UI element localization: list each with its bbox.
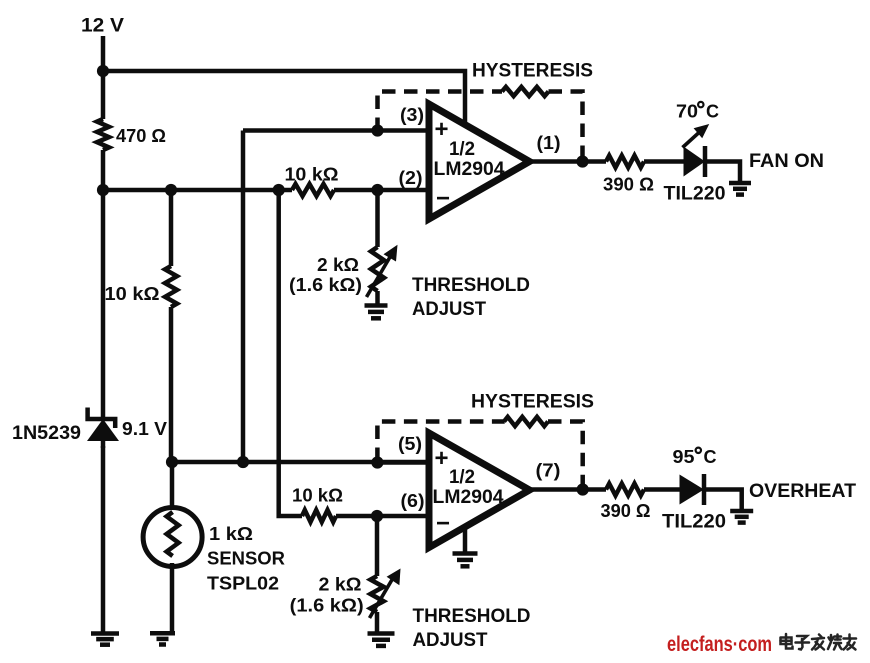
svg-text:1N5239: 1N5239	[12, 423, 81, 444]
potentiometer RP1 arrow	[367, 257, 391, 297]
svg-text:(3): (3)	[400, 105, 424, 125]
svg-text:10 kΩ: 10 kΩ	[292, 486, 343, 506]
svg-text:1/2: 1/2	[449, 467, 475, 488]
node output2 junction	[577, 483, 589, 495]
node A junction left	[97, 184, 109, 196]
ground left rail	[91, 631, 119, 636]
svg-text:(1.6 kΩ): (1.6 kΩ)	[289, 275, 362, 295]
watermark CJK 电子发烧友	[781, 634, 793, 649]
svg-text:(1.6 kΩ): (1.6 kΩ)	[290, 596, 364, 616]
svg-text:9.1 V: 9.1 V	[122, 419, 167, 439]
svg-text:10 kΩ: 10 kΩ	[105, 284, 160, 304]
svg-text:C: C	[704, 447, 717, 467]
wire RP2 to ground	[375, 612, 380, 634]
svg-text:(5): (5)	[398, 434, 422, 454]
wire R2 to node B	[169, 307, 174, 462]
wire node B to sensor	[170, 462, 175, 508]
potentiometer RP2 element	[371, 576, 384, 612]
resistor R8 hysteresis2	[504, 417, 548, 426]
svg-text:SENSOR: SENSOR	[207, 549, 285, 569]
node pin5 junction	[371, 456, 383, 468]
potentiometer RP1 element	[371, 247, 384, 291]
node B junction sensor	[166, 456, 178, 468]
svg-text:390 Ω: 390 Ω	[601, 501, 651, 521]
resistor R6 10k bottom	[302, 510, 336, 522]
resistor R2 10k vertical	[165, 266, 177, 307]
wire sensor to ground	[170, 563, 175, 633]
wire R9 to LED2	[644, 487, 682, 492]
wire hysteresis feedback dashed left	[378, 92, 503, 132]
zener diode D1 1N5239	[87, 419, 119, 441]
node 12V junction	[97, 65, 109, 77]
node pin6 junction	[371, 510, 383, 522]
svg-text:ADJUST: ADJUST	[412, 299, 486, 320]
svg-text:2 kΩ: 2 kΩ	[317, 255, 359, 275]
svg-text:470 Ω: 470 Ω	[116, 126, 166, 146]
node output1 junction	[576, 155, 588, 167]
node pin2 junction	[371, 184, 383, 196]
svg-text:THRESHOLD: THRESHOLD	[412, 275, 530, 296]
ground RP2	[368, 631, 395, 636]
svg-text:OVERHEAT: OVERHEAT	[749, 481, 856, 502]
svg-text:2 kΩ: 2 kΩ	[319, 575, 362, 595]
wire 12V supply rail to op-amp	[103, 71, 465, 124]
svg-text:C: C	[706, 101, 719, 121]
svg-text:LM2904: LM2904	[434, 159, 505, 180]
svg-text:HYSTERESIS: HYSTERESIS	[471, 392, 594, 413]
resistor R4 hysteresis	[502, 87, 549, 96]
svg-text:10 kΩ: 10 kΩ	[285, 165, 339, 185]
wire pin6 node to RP2	[375, 516, 380, 576]
wire R7 to LED1	[644, 159, 684, 164]
wire R6 to inverting input pin6	[336, 514, 429, 519]
svg-text:LM2904: LM2904	[433, 487, 504, 508]
wire pin3 to node B vertical	[241, 131, 246, 463]
svg-text:THRESHOLD: THRESHOLD	[413, 606, 531, 627]
svg-text:390 Ω: 390 Ω	[603, 175, 654, 195]
svg-text:12 V: 12 V	[81, 16, 124, 37]
resistor R7 390 top	[606, 156, 644, 168]
wire node A rail left	[103, 188, 292, 193]
svg-text:HYSTERESIS: HYSTERESIS	[472, 61, 593, 82]
wire LED2 to ground	[704, 490, 742, 512]
svg-text:1 kΩ: 1 kΩ	[209, 524, 253, 544]
ground RP1	[365, 303, 388, 308]
LED D2 TIL220	[684, 147, 706, 177]
wire hysteresis2 feedback dashed right	[548, 422, 583, 488]
svg-text:(6): (6)	[401, 491, 425, 511]
wire hysteresis2 feedback dashed left	[377, 422, 504, 462]
wire 12V rail top segment	[101, 36, 106, 119]
op-amp U1A triangle	[429, 104, 530, 219]
thermistor RT1 element	[167, 512, 179, 556]
node A junction R2	[165, 184, 177, 196]
wire non-inverting input pin3	[243, 128, 429, 133]
wire left rail bottom segment	[101, 446, 106, 634]
svg-text:ADJUST: ADJUST	[413, 630, 488, 651]
svg-text:(2): (2)	[399, 168, 423, 188]
resistor R3 10k top	[292, 184, 334, 196]
svg-text:−: −	[436, 185, 450, 212]
wire left rail middle segment	[101, 150, 106, 420]
node pin3 junction	[371, 124, 383, 136]
wire R3 to inverting input pin2	[334, 188, 429, 193]
svg-text:(1): (1)	[537, 133, 561, 153]
svg-text:elecfans·com: elecfans·com	[667, 633, 772, 656]
potentiometer RP2 arrow	[370, 578, 394, 618]
svg-text:TIL220: TIL220	[664, 184, 726, 205]
wire node A to R6 vertical	[279, 190, 302, 516]
node A junction R5	[273, 184, 285, 196]
op-amp U1B ground pin wire	[463, 527, 468, 554]
ground LED1	[729, 181, 751, 186]
wire LED1 to ground	[705, 162, 740, 184]
wire op-amp U1B output	[530, 487, 607, 492]
LED D3 TIL220	[680, 475, 705, 505]
svg-text:+: +	[435, 445, 449, 472]
resistor R9 390 bottom	[606, 484, 644, 496]
thermistor RT1 sensor circle	[143, 508, 202, 567]
op-amp U1B triangle	[429, 433, 530, 548]
svg-text:95: 95	[673, 447, 695, 467]
svg-text:−: −	[436, 510, 450, 537]
svg-text:FAN ON: FAN ON	[749, 151, 824, 172]
svg-text:TIL220: TIL220	[662, 512, 726, 533]
ground LED2	[730, 509, 753, 514]
svg-text:TSPL02: TSPL02	[207, 574, 279, 594]
resistor R1 470ohm	[97, 119, 109, 150]
ground sensor	[150, 631, 175, 636]
wire pin2 node to RP1	[375, 190, 380, 247]
wire node A to R2	[169, 190, 174, 266]
wire RP1 to ground	[375, 291, 380, 306]
wire op-amp U1A output	[530, 159, 607, 164]
svg-text:(7): (7)	[536, 461, 561, 481]
node B junction pin3 wire	[237, 456, 249, 468]
svg-text:70: 70	[676, 102, 698, 122]
svg-text:1/2: 1/2	[449, 139, 475, 160]
LED D2 arrow	[683, 133, 700, 148]
ground op-amp U1B	[453, 551, 478, 556]
wire hysteresis feedback dashed right	[549, 92, 583, 159]
wire non-inverting input pin5	[377, 460, 429, 465]
wire node B rail	[171, 460, 429, 465]
svg-text:+: +	[435, 116, 449, 143]
